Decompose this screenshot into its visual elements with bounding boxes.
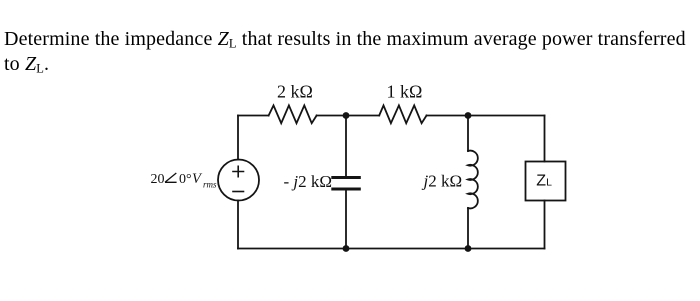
minus sign inside source (233, 191, 244, 193)
svg-text:ZL: ZL (536, 172, 552, 189)
problem statement text (4, 27, 698, 77)
wire between R1 and node A (317, 115, 380, 117)
junction node B bottom (465, 245, 472, 252)
capacitor C1 -j2 kOhm plates (331, 178, 361, 190)
svg-text:0°: 0° (179, 172, 192, 187)
svg-text:- j2 kΩ: - j2 kΩ (284, 172, 333, 191)
plus sign inside source (233, 166, 244, 176)
inductor L1 j2 kOhm (468, 151, 478, 209)
svg-text:rms: rms (203, 180, 217, 190)
wire between R2 and top-right corner (427, 115, 545, 117)
label capacitor -j2 kOhm (284, 172, 333, 191)
label 2 kOhm (277, 82, 313, 102)
wire right branch upper (to ZL) (544, 116, 546, 162)
svg-text:V: V (192, 171, 203, 187)
svg-text:1 kΩ: 1 kΩ (387, 82, 423, 102)
wire inductor bottom lead (467, 208, 469, 249)
resistor R2 1 kOhm (379, 105, 426, 123)
wire right branch lower (from ZL) (544, 201, 546, 249)
wire left branch upper (source top lead) (237, 116, 239, 160)
label inductor j2 kOhm (422, 172, 463, 191)
load ZL box (526, 162, 566, 201)
svg-text:2 kΩ: 2 kΩ (277, 82, 313, 102)
wire inductor top lead (467, 116, 469, 152)
svg-text:j2 kΩ: j2 kΩ (422, 172, 463, 191)
resistor R1 2 kOhm (269, 105, 317, 123)
junction node A top (343, 112, 350, 119)
wire capacitor top lead (345, 116, 347, 177)
wire left branch lower (source bottom lead) (237, 201, 239, 249)
label source value 20 angle 0 Vrms (151, 171, 218, 190)
junction node A bottom (343, 245, 350, 252)
junction node B top (465, 112, 472, 119)
label ZL inside load box (536, 172, 552, 189)
wire top-left segment (238, 115, 269, 117)
voltage source Vs circle (218, 160, 259, 201)
wire capacitor bottom lead (345, 191, 347, 249)
bottom wire (238, 248, 545, 250)
svg-text:20: 20 (151, 172, 165, 187)
label 1 kOhm (387, 82, 423, 102)
